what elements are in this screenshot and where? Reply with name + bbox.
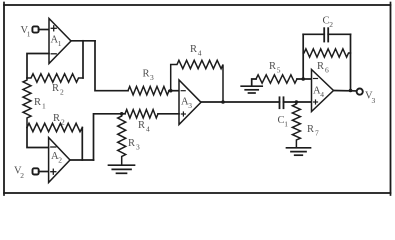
svg-text:R: R <box>138 120 145 131</box>
op-amp A4 <box>312 70 334 112</box>
wire C2/R6 loop right riser <box>350 34 352 90</box>
svg-text:R: R <box>128 138 135 149</box>
svg-text:4: 4 <box>320 90 324 99</box>
wire A1 inverting input to R2 <box>27 54 49 79</box>
wire C1 to A4 + input <box>284 101 312 103</box>
ground (R5 input) <box>241 86 262 93</box>
junction R4 feedback right <box>221 100 225 104</box>
terminal V3 <box>357 89 376 106</box>
wire R3 to A3 inverting input <box>169 90 179 92</box>
op-amp A2 <box>49 138 70 183</box>
svg-text:R: R <box>269 61 276 72</box>
resistor R2 (A1 feedback) <box>27 74 83 97</box>
svg-text:1: 1 <box>42 102 46 111</box>
junction R3 ground tap <box>120 112 124 116</box>
wire ground stub to R5 <box>252 79 256 86</box>
wire A1 feedback drop <box>82 41 84 78</box>
resistor R7 <box>292 104 319 146</box>
wire A1 path down to R3 <box>95 41 128 91</box>
resistor R1 <box>23 78 46 128</box>
terminal V1 <box>21 25 39 39</box>
resistor R3 (to ground) <box>118 114 140 164</box>
svg-text:1: 1 <box>284 120 288 129</box>
ground (below R3) <box>109 165 135 173</box>
resistor R4 (A3 feedback) <box>171 44 223 102</box>
resistor R3 (A1 path) <box>128 69 169 95</box>
svg-text:1: 1 <box>27 30 31 39</box>
svg-text:R: R <box>52 83 59 94</box>
svg-text:R: R <box>307 124 314 135</box>
svg-text:5: 5 <box>277 66 281 75</box>
wire A3 output to C1 <box>201 101 280 103</box>
svg-text:2: 2 <box>329 20 333 29</box>
svg-text:R: R <box>190 44 197 55</box>
wire A2 inverting input <box>27 128 49 148</box>
svg-text:2: 2 <box>60 88 64 97</box>
junction R4 feedback left <box>169 89 173 93</box>
border frame <box>4 3 391 196</box>
svg-text:3: 3 <box>136 143 140 152</box>
wire A1 output <box>71 40 95 42</box>
svg-text:2: 2 <box>20 171 24 180</box>
capacitor C2 <box>303 15 350 41</box>
svg-text:3: 3 <box>150 73 154 82</box>
ground (below R7) <box>287 148 311 155</box>
junction feedback left <box>301 77 305 81</box>
wire A2 path up to R4 <box>94 114 126 160</box>
resistor R5 <box>256 61 297 83</box>
svg-text:R: R <box>53 113 60 124</box>
svg-text:7: 7 <box>315 129 319 138</box>
terminal V2 <box>14 165 39 180</box>
svg-text:3: 3 <box>372 96 376 105</box>
svg-text:3: 3 <box>188 101 192 110</box>
wire V1 to A1 + input <box>39 29 49 31</box>
wire R5 to A4 inverting input <box>297 78 312 80</box>
op-amp A1 <box>49 19 71 64</box>
svg-text:4: 4 <box>198 49 202 58</box>
wire V2 to A2 + input <box>39 171 49 173</box>
wire R4 to A3 + input <box>158 113 179 115</box>
svg-text:6: 6 <box>325 66 329 75</box>
wire A4 output <box>334 90 357 92</box>
junction feedback right <box>349 89 353 93</box>
op-amp A3 <box>179 80 201 125</box>
resistor R4 (A2 path) <box>125 110 158 134</box>
wire A2 output <box>70 159 94 161</box>
resistor R6 <box>303 49 350 75</box>
svg-text:4: 4 <box>146 125 150 134</box>
svg-text:2: 2 <box>58 156 62 165</box>
svg-text:1: 1 <box>58 39 62 48</box>
wire A2 feedback rise <box>81 128 83 161</box>
resistor R2 (A2 feedback) <box>27 113 82 132</box>
svg-text:R: R <box>143 69 150 80</box>
svg-text:R: R <box>34 97 41 108</box>
svg-text:2: 2 <box>61 118 65 127</box>
svg-text:R: R <box>317 61 324 72</box>
capacitor C1 <box>278 97 289 128</box>
junction R7 tap <box>295 100 299 104</box>
wire C2/R6 loop left riser <box>302 34 304 79</box>
